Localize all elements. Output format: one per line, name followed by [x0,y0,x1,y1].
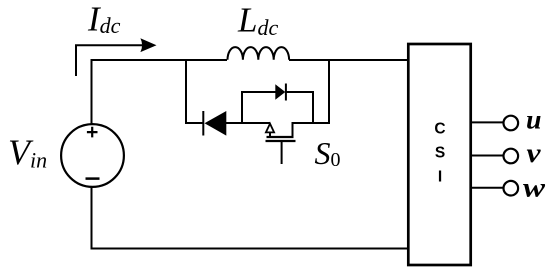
S0 gate lead [281,142,283,165]
terminal w [504,181,519,196]
svg-text:u: u [526,104,542,134]
wire top-right: from inductor to CSI block [289,59,408,61]
wire small-diode loop right leg [286,92,313,122]
svg-text:I: I [438,169,442,186]
S0 channel bar [267,136,294,138]
wire clamp left branch down from node A [186,59,204,123]
voltage source V_in circle [61,124,124,187]
terminal u [504,116,519,131]
wire bottom return [92,187,409,249]
wire drain to node B up to top wire [293,59,330,138]
svg-text:Idc: Idc [87,0,121,39]
inductor L_dc [228,47,290,60]
wire small-diode loop left leg [242,92,276,124]
label CSI [434,120,445,185]
wire phase u [471,121,504,123]
diode D1 (freewheel, pointing left) [203,111,226,136]
S0 source arrow [266,124,274,133]
svg-text:Ldc: Ldc [237,1,278,41]
svg-text:C: C [434,120,445,137]
terminal v [504,149,519,164]
wire phase w [471,187,504,189]
svg-text:S0: S0 [315,135,341,171]
S0 source stub [269,132,271,137]
voltage source plus sign [87,127,98,138]
CSI block [408,44,470,265]
wire between diode D1 and switch [225,122,270,124]
voltage source minus sign [86,177,100,180]
svg-text:v: v [527,138,542,168]
diode D2 (small, pointing right) [275,84,286,101]
svg-text:Vin: Vin [8,132,47,173]
svg-text:w: w [523,172,546,202]
wire phase v [471,155,504,157]
wire top-left: from source top up and right to inductor [92,60,228,125]
svg-text:S: S [435,145,445,162]
current arrow I_dc [76,38,157,76]
S0 gate bar [266,140,296,142]
switch S0 (MOSFET) [266,124,296,164]
